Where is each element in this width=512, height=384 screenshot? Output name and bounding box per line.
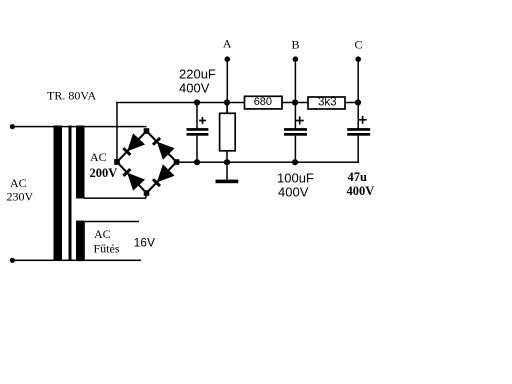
- wire top positive rail: [116, 102, 359, 104]
- wire C down: [357, 59, 359, 129]
- svg-text:100uF: 100uF: [277, 171, 314, 186]
- junction dot rail at A: [224, 99, 230, 105]
- wire bottom negative rail: [177, 161, 360, 163]
- transformer T1 secondary 16V winding bar: [76, 221, 85, 262]
- svg-text:A: A: [223, 37, 232, 51]
- wire primary top lead: [12, 126, 147, 128]
- ground stub: [226, 162, 228, 180]
- bridge rectifier edges: [117, 131, 177, 193]
- diode D2 bottom-left: [122, 168, 131, 177]
- svg-text:230V: 230V: [7, 190, 34, 204]
- transformer T1 secondary 200V winding bar: [76, 126, 85, 199]
- junction dot rail at C1: [194, 99, 200, 105]
- svg-text:B: B: [292, 38, 300, 52]
- svg-text:TR. 80VA: TR. 80VA: [47, 89, 96, 103]
- resistor R1 680: [245, 96, 283, 109]
- junction dot rail at B: [292, 99, 298, 105]
- diode D4 bottom-right: [152, 178, 161, 187]
- svg-text:AC: AC: [94, 227, 111, 241]
- svg-text:400V: 400V: [347, 184, 375, 198]
- resistor R3 bleeder: [226, 103, 228, 114]
- node C terminal: [355, 56, 361, 62]
- terminal dot primary bottom: [10, 258, 15, 263]
- plus sign C2: [296, 117, 304, 125]
- svg-text:C: C: [355, 38, 363, 52]
- junction dot bottom rail at C2: [292, 159, 298, 165]
- svg-text:AC: AC: [10, 176, 27, 190]
- terminal dot primary top: [10, 124, 15, 129]
- svg-text:AC: AC: [90, 150, 107, 164]
- capacitor C2 100uF: [284, 128, 307, 131]
- svg-text:200V: 200V: [90, 166, 118, 180]
- junction dot bottom rail at ground: [224, 159, 230, 165]
- capacitor C1 220uF: [196, 103, 198, 129]
- svg-text:Fűtés: Fűtés: [94, 242, 120, 256]
- plus sign C3: [359, 116, 367, 124]
- bridge corner node right (-): [174, 159, 180, 165]
- junction dot bottom rail at C1: [194, 159, 200, 165]
- junction dot rail at C: [355, 99, 361, 105]
- capacitor C3 47u: [347, 128, 370, 131]
- diode D3 top-right: [152, 137, 161, 146]
- node A terminal: [225, 56, 231, 62]
- resistor R2 3k3: [308, 97, 345, 109]
- node B terminal: [293, 56, 299, 62]
- wire secondary 200V bottom lead: [84, 197, 146, 199]
- bridge corner node top (AC): [144, 128, 150, 134]
- svg-text:3k3: 3k3: [318, 97, 337, 109]
- svg-text:400V: 400V: [278, 185, 309, 200]
- transformer T1 primary winding bar: [54, 126, 63, 262]
- svg-text:400V: 400V: [179, 81, 210, 96]
- wire secondary 16V top lead: [85, 221, 139, 223]
- svg-text:47u: 47u: [348, 170, 368, 184]
- wire primary bottom lead: [12, 260, 141, 262]
- bridge corner node left (+): [114, 159, 120, 165]
- bridge corner node bottom (AC): [144, 190, 150, 196]
- ground symbol: [216, 180, 239, 184]
- wire A down: [227, 59, 229, 114]
- svg-text:220uF: 220uF: [179, 67, 216, 82]
- transformer T1 core: [69, 126, 72, 262]
- diode D1 top-left: [122, 147, 131, 156]
- wire stub to bridge bottom corner: [145, 192, 147, 198]
- svg-text:16V: 16V: [134, 236, 155, 250]
- plus sign C1: [199, 117, 206, 124]
- wire B down: [295, 59, 297, 129]
- svg-text:680: 680: [254, 96, 272, 108]
- wire bridge + up to rail: [116, 102, 118, 162]
